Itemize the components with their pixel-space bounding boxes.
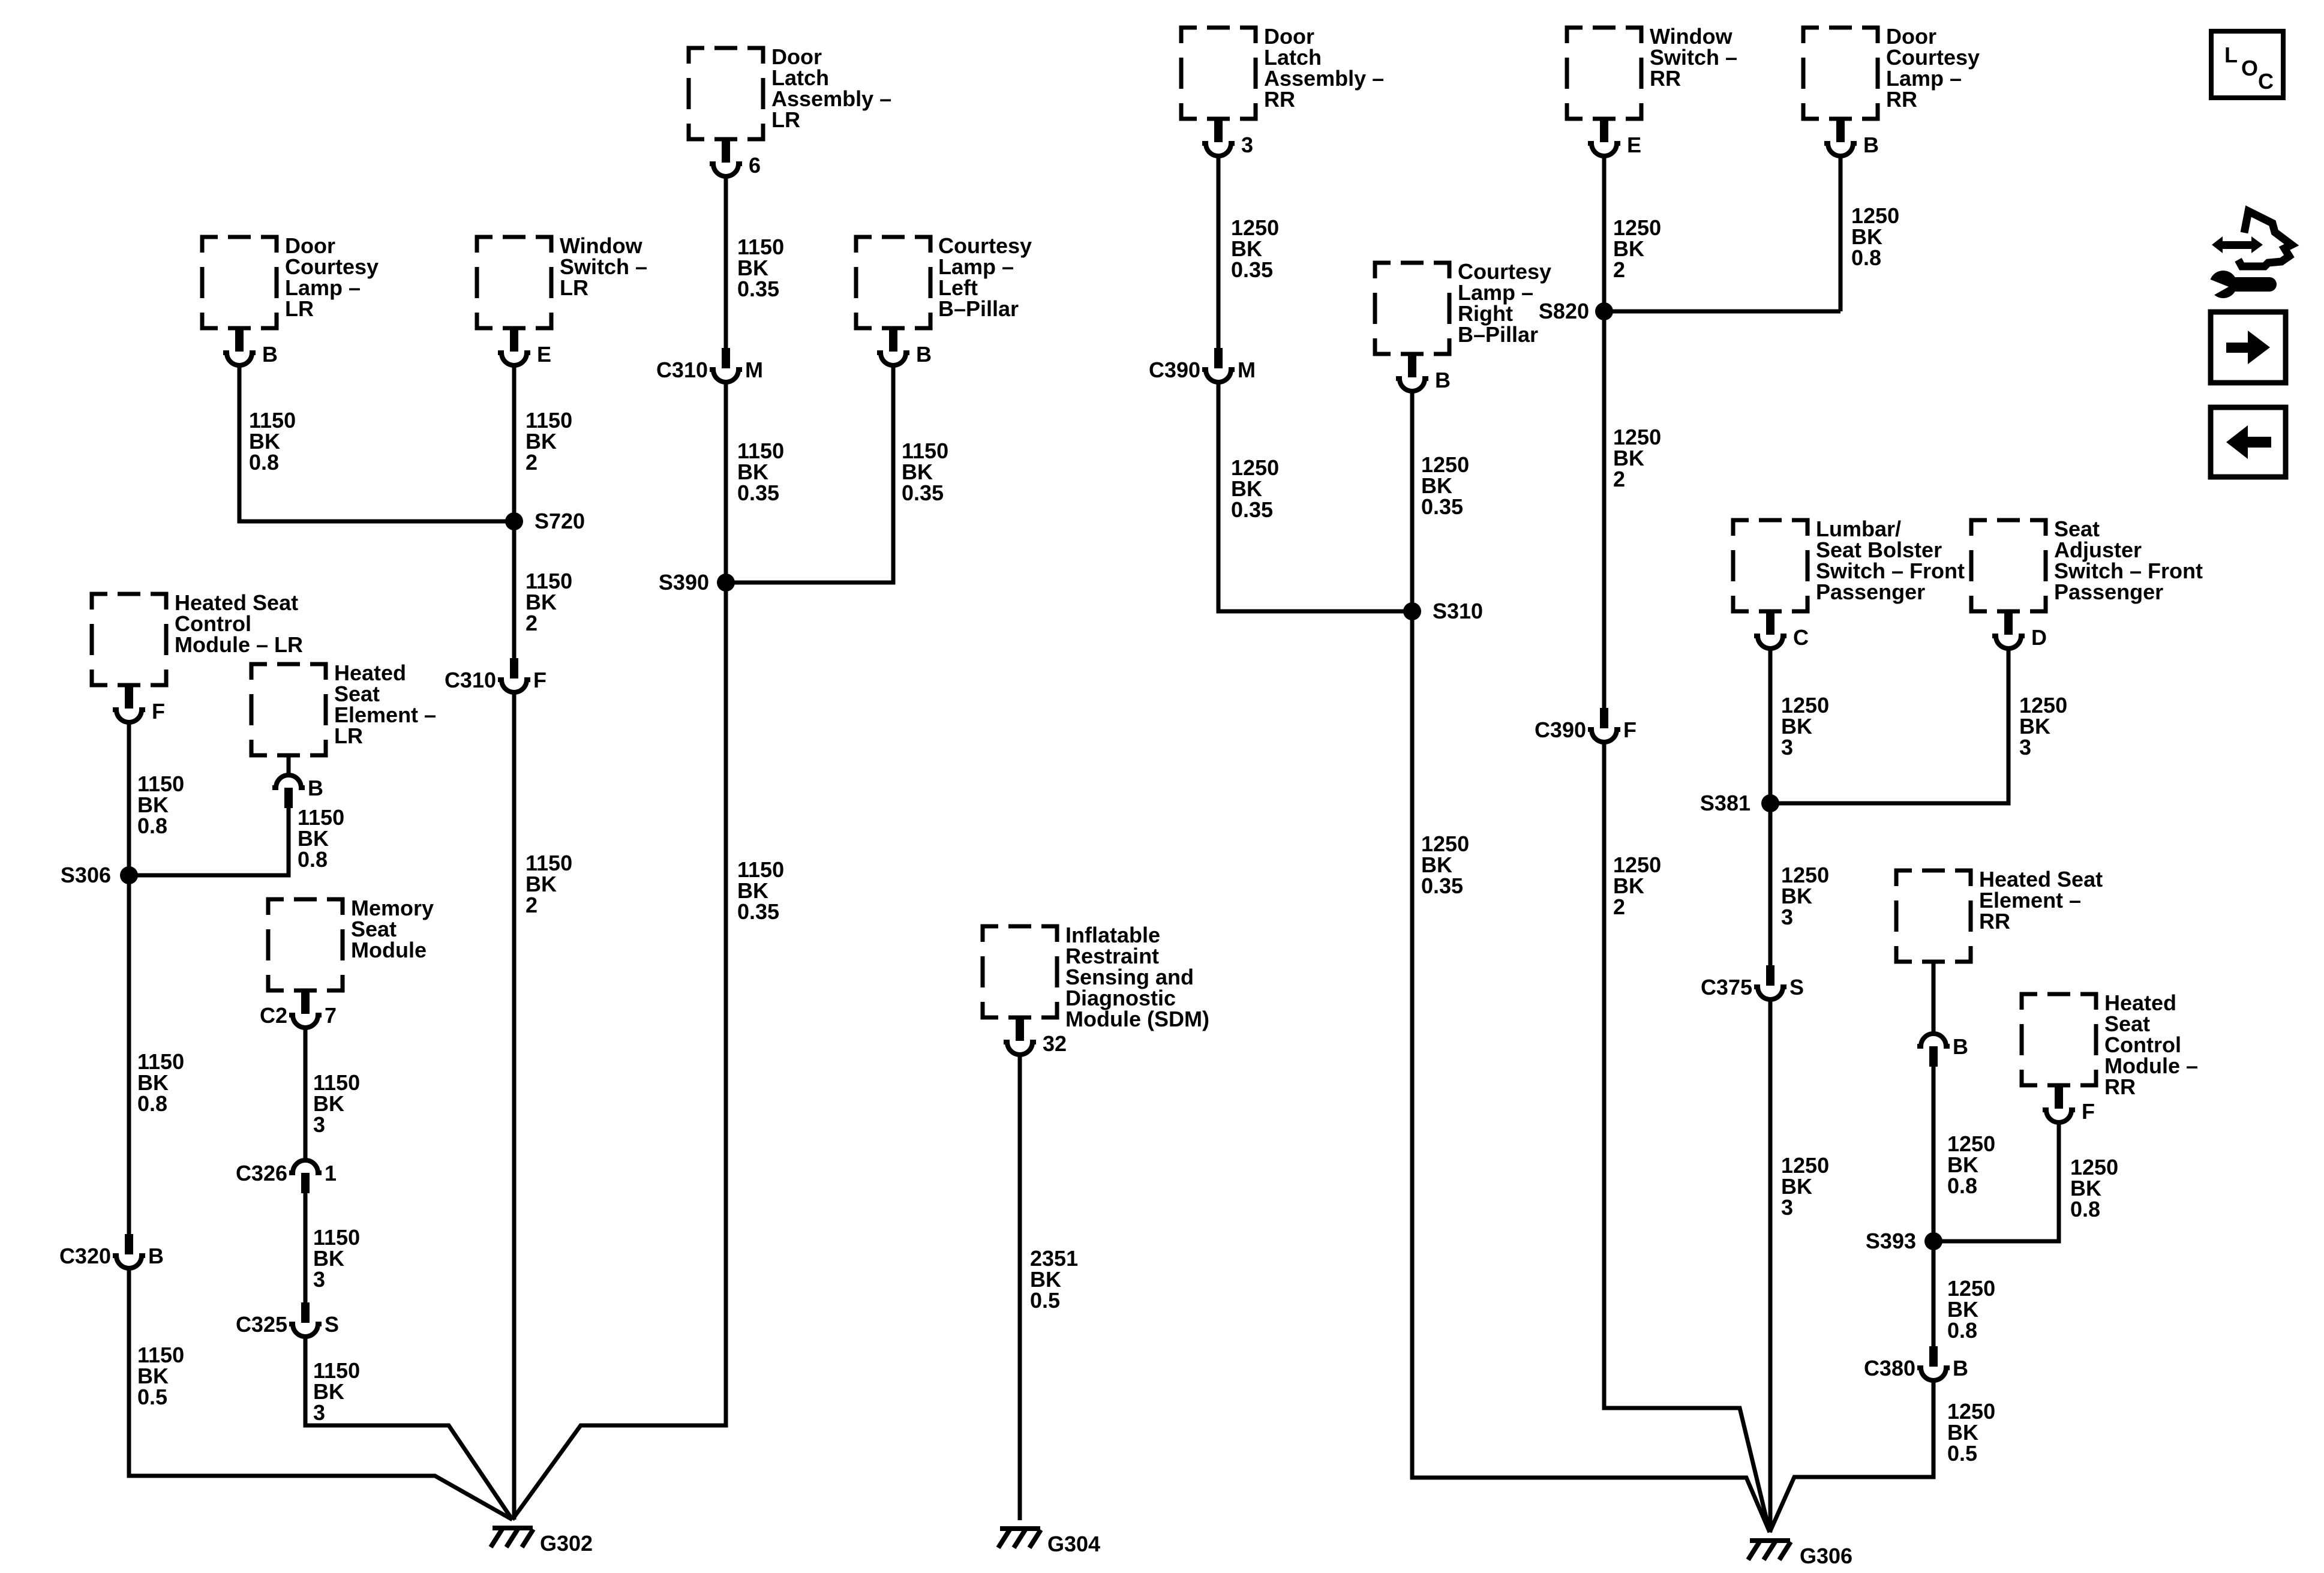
wire 1150 BK 0.35 from Door Latch 6 to C310 M (724, 176, 728, 348)
connector pin 32 of SDM (1016, 1017, 1024, 1041)
wire 1150 BK 0.35 from C310 M to S390 (724, 382, 728, 583)
wire 1250 BK 0.8 from Heated Seat Element B to S393 (1932, 1067, 1936, 1241)
wire 1250 BK 2 from Window Switch E to S820 (1602, 156, 1607, 311)
svg-text:M: M (745, 358, 763, 382)
connector pin B of Door Courtesy Lamp - LR (235, 328, 244, 352)
svg-text:3: 3 (1241, 133, 1253, 157)
connector pin F of Heated Seat Control Module - LR (125, 685, 133, 709)
component box: Heated Seat Element - LR (251, 664, 326, 755)
wire 1150 BK 3 from C326 1 to C325 S (304, 1193, 308, 1302)
svg-text:S306: S306 (61, 863, 111, 887)
svg-text:F: F (533, 668, 547, 692)
wire 1250 BK 0.8 from Door Courtesy Lamp RR B to S820 branch (1839, 156, 1843, 311)
connector pin F of Heated Seat Control Module - RR (2055, 1085, 2063, 1109)
svg-text:O: O (2241, 56, 2258, 80)
ground G306 (1748, 1541, 1791, 1560)
wire 1250 BK 0.8 from S393 to C380 B (1932, 1241, 1936, 1346)
svg-text:G306: G306 (1800, 1544, 1852, 1568)
wire 2351 BK 0.5 from SDM 32 to G304 (1018, 1055, 1022, 1520)
svg-text:S393: S393 (1866, 1229, 1916, 1253)
connector pin D of Seat Adjuster Switch (2004, 611, 2013, 635)
connector pin B of Courtesy Lamp - Left B-Pillar (889, 328, 897, 352)
wire 1250 BK 3 from C375 S to G306 (1768, 999, 1773, 1532)
wire stub from Heated Seat Element - RR box (1932, 962, 1936, 1035)
inline connector C320 cavity B (125, 1234, 133, 1254)
svg-text:C320: C320 (59, 1244, 111, 1268)
inline connector C326 cavity 1 (289, 1160, 322, 1173)
svg-text:7: 7 (325, 1003, 337, 1028)
connector pin B of Heated Seat Element - LR (272, 775, 305, 788)
connector pin B of Heated Seat Element - RR (1917, 1034, 1950, 1046)
svg-text:C325: C325 (236, 1312, 287, 1337)
icon: LOC reference box (2211, 31, 2283, 98)
svg-text:C310: C310 (656, 358, 708, 382)
svg-text:D: D (2031, 625, 2047, 650)
component box: Heated Seat Control Module - LR (92, 594, 166, 685)
inline connector C310 cavity F (510, 658, 518, 679)
component box: Door Latch Assembly - LR (689, 48, 763, 139)
wire from S820 to Door Courtesy Lamp RR branch (1604, 310, 1840, 314)
wire 1150 BK 0.8 from S306 to C320 (127, 875, 131, 1234)
splice S820 (1595, 302, 1613, 320)
svg-text:M: M (1238, 358, 1256, 382)
wire 1150 BK 2 from C310 F to G302 (512, 692, 517, 1520)
svg-text:B: B (1953, 1034, 1968, 1059)
icon: harness repair (double arrow, wire outline, wrench) (2202, 211, 2292, 299)
component box: Courtesy Lamp - Right B-Pillar (1375, 263, 1449, 354)
svg-text:B: B (1863, 133, 1879, 157)
wire 1150 BK 3 from C325 S to G302 (305, 1337, 512, 1520)
component box: Window Switch - RR (1567, 28, 1641, 119)
svg-text:F: F (152, 699, 165, 724)
svg-text:B: B (1435, 368, 1451, 392)
wire 1250 BK 3 from Seat Adjuster D to S381 (1770, 649, 2008, 803)
wire 1250 BK 2 from C390 F to G306 (1604, 742, 1770, 1532)
connector pin 6 of Door Latch Assembly - LR (722, 139, 730, 163)
svg-text:E: E (1627, 133, 1641, 157)
svg-text:G302: G302 (540, 1531, 593, 1556)
svg-text:S820: S820 (1539, 299, 1589, 323)
component box: Courtesy Lamp - Left B-Pillar (856, 237, 930, 328)
wire 1150 BK 0.35 from Courtesy Lamp Left B to S390 (726, 365, 893, 583)
ground G304 (998, 1529, 1041, 1548)
svg-text:F: F (2082, 1099, 2095, 1124)
connector pin B of Courtesy Lamp - Right B-Pillar (1408, 354, 1416, 377)
component box: Memory Seat Module (268, 899, 343, 990)
inline connector C390 cavity M (1214, 348, 1223, 368)
component box: Window Switch - LR (477, 237, 551, 328)
wire 1250 BK 0.35 from Door Latch 3 to C390 M (1217, 156, 1221, 348)
svg-text:S390: S390 (659, 570, 709, 595)
connector pin 3 of Door Latch Assembly - RR (1214, 119, 1223, 142)
wire 1250 BK 0.35 from Courtesy Lamp Right B to S310 (1410, 391, 1415, 611)
svg-text:B: B (1953, 1356, 1968, 1380)
component box: Door Latch Assembly - RR (1181, 28, 1256, 119)
wire 1150 BK 0.35 from S390 down to G302 (512, 583, 726, 1520)
svg-text:G304: G304 (1047, 1532, 1100, 1556)
svg-text:32: 32 (1043, 1031, 1067, 1056)
wire 1250 BK 0.5 from C380 B to G306 (1770, 1380, 1933, 1532)
svg-text:C310: C310 (445, 668, 496, 692)
component box: Inflatable Restraint Sensing and Diagnostic Module (SDM) (983, 926, 1057, 1017)
wire 1150 BK 0.8 from Heated Seat Element B to S306 (129, 808, 289, 875)
splice S393 (1924, 1232, 1942, 1250)
wire 1150 BK 2 from S720 to C310 F (512, 521, 517, 658)
svg-text:C: C (2258, 69, 2274, 94)
svg-text:E: E (537, 342, 551, 367)
wire 1150 BK 0.8 from Door Courtesy Lamp B to S720 (239, 365, 514, 521)
svg-text:S310: S310 (1433, 599, 1483, 623)
svg-text:B: B (262, 342, 278, 367)
svg-text:S381: S381 (1700, 791, 1750, 815)
wire 1250 BK 3 from Lumbar Switch C to S381 (1768, 649, 1773, 803)
splice S720 (505, 512, 523, 530)
svg-text:C2: C2 (260, 1003, 287, 1028)
wire 1250 BK 0.35 from S310 to G306 (1412, 611, 1770, 1532)
svg-text:C390: C390 (1535, 718, 1586, 742)
svg-text:C380: C380 (1864, 1356, 1915, 1380)
inline connector C325 cavity S (301, 1302, 310, 1323)
svg-text:S: S (325, 1312, 339, 1337)
svg-text:B: B (916, 342, 932, 367)
wire 1250 BK 3 from S381 to C375 S (1768, 803, 1773, 965)
splice S306 (120, 866, 138, 884)
svg-text:C375: C375 (1701, 975, 1752, 999)
component box: Heated Seat Element - RR (1896, 870, 1971, 962)
component box: Seat Adjuster Switch - Front Passenger (1971, 520, 2046, 611)
splice S310 (1403, 602, 1421, 620)
svg-text:L: L (2224, 43, 2238, 67)
component box: Lumbar Seat Bolster Switch - Front Passenger (1733, 520, 1807, 611)
svg-text:F: F (1623, 718, 1637, 742)
wire stub from Heated Seat Element - LR box (287, 755, 291, 776)
component box: Door Courtesy Lamp - RR (1803, 28, 1878, 119)
svg-text:C390: C390 (1149, 358, 1200, 382)
wire 1150 BK 0.8 from Heated Seat Control Module F to S306 (127, 722, 131, 875)
connector C2 cavity 7 of Memory Seat Module (301, 990, 310, 1014)
svg-text:6: 6 (749, 153, 761, 178)
connector pin E of Window Switch - RR (1600, 119, 1608, 142)
inline connector C375 cavity S (1766, 965, 1774, 986)
wire 1150 BK 2 from Window Switch E to S720 (512, 365, 517, 521)
connector pin B of Door Courtesy Lamp - RR (1836, 119, 1845, 142)
wire 1150 BK 0.5 from C320 B to G302 (129, 1268, 512, 1520)
ground G302 (491, 1528, 533, 1547)
inline connector C380 cavity B (1929, 1346, 1938, 1367)
svg-text:S720: S720 (535, 509, 585, 533)
splice S381 (1761, 794, 1779, 812)
wire 1250 BK 2 from S820 to C390 F (1602, 311, 1607, 708)
connector pin C of Lumbar Seat Bolster Switch (1766, 611, 1774, 635)
connector pin E of Window Switch - LR (510, 328, 518, 352)
wire 1250 BK 0.35 from C390 M to S310 (1218, 382, 1412, 611)
svg-text:C: C (1793, 625, 1809, 650)
svg-text:B: B (308, 776, 323, 800)
inline connector C390 cavity F (1600, 708, 1608, 728)
wire 1250 BK 0.8 from Heated Seat Control F to S393 (1933, 1122, 2059, 1241)
svg-text:C326: C326 (236, 1161, 287, 1185)
splice S390 (717, 574, 735, 592)
icon: forward arrow box (2211, 312, 2286, 383)
icon: back arrow box (2211, 407, 2286, 477)
component box: Heated Seat Control Module - RR (2022, 994, 2096, 1085)
component box: Door Courtesy Lamp - LR (202, 237, 277, 328)
inline connector C310 cavity M (722, 348, 730, 368)
svg-text:S: S (1789, 975, 1804, 999)
svg-text:B: B (148, 1244, 164, 1268)
svg-text:1: 1 (325, 1161, 337, 1185)
wire 1150 BK 3 from C2 7 to C326 1 (304, 1028, 308, 1160)
